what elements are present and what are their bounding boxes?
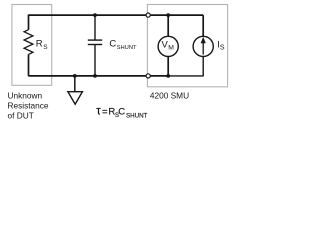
resistor RS [24, 15, 33, 77]
svg-text:C: C [118, 106, 125, 117]
wire top net [29, 14, 204, 16]
ground [68, 76, 83, 104]
svg-text:SHUNT: SHUNT [117, 45, 137, 51]
svg-text:R: R [36, 39, 43, 50]
label tau formula [96, 105, 147, 119]
label IS [217, 39, 225, 51]
svg-text:M: M [168, 45, 174, 52]
svg-text:=: = [102, 106, 108, 117]
svg-text:S: S [220, 44, 225, 51]
svg-text:S: S [43, 44, 48, 51]
svg-text:C: C [109, 39, 116, 50]
svg-text:SHUNT: SHUNT [126, 112, 148, 119]
wire bottom net [29, 75, 169, 77]
enclosure box DUT [12, 5, 52, 86]
label RS [36, 39, 49, 51]
junction top capacitor node [93, 13, 97, 17]
wire bottom net right segment [168, 75, 203, 77]
svg-text:τ: τ [96, 105, 101, 117]
current source IS [193, 15, 213, 76]
label VM [162, 39, 175, 51]
terminal SMU force hi (top) [146, 13, 150, 17]
junction bottom VM node [166, 74, 170, 78]
svg-text:4200 SMU: 4200 SMU [150, 90, 189, 100]
junction bottom ground node [73, 74, 77, 78]
label Unknown Resistance of DUT [8, 91, 49, 121]
terminal SMU force lo (bottom) [146, 74, 150, 78]
label CSHUNT [109, 39, 137, 52]
capacitor CSHUNT [88, 15, 102, 76]
enclosure box 4200 SMU [147, 5, 227, 87]
svg-text:Unknown: Unknown [8, 91, 43, 101]
junction top VM node [166, 13, 170, 17]
svg-text:of DUT: of DUT [8, 111, 34, 121]
junction bottom capacitor node [93, 74, 97, 78]
svg-text:Resistance: Resistance [8, 101, 49, 111]
voltmeter VM [158, 15, 178, 76]
